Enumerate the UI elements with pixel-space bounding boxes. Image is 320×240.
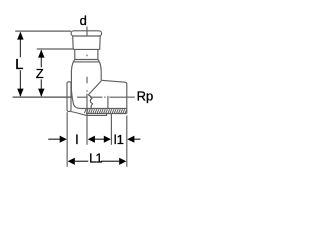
extension line top (bead top level) bbox=[15, 30, 71, 32]
press socket bead bbox=[71, 31, 102, 36]
svg-text:Rp: Rp bbox=[137, 88, 154, 103]
elbow miter diagonal bbox=[88, 81, 101, 95]
section break line (jagged) bbox=[88, 95, 92, 109]
socket waist walls bbox=[75, 49, 98, 59]
right port outline (top edge, end face) bbox=[101, 80, 127, 113]
svg-text:L1: L1 bbox=[89, 150, 102, 165]
svg-text:d: d bbox=[80, 13, 87, 28]
body left wall (flared) bbox=[71, 62, 73, 91]
socket stop step line bbox=[73, 48, 100, 50]
flange disc bbox=[67, 82, 71, 112]
arrow Z up bbox=[38, 50, 44, 58]
press socket walls bbox=[73, 36, 101, 49]
extension line D bbox=[126, 116, 128, 167]
thread band top line bbox=[85, 108, 127, 110]
extension line Z top (socket stop level) bbox=[37, 48, 73, 50]
thread band bottom line bbox=[86, 113, 127, 115]
arrow L1 left bbox=[68, 158, 75, 165]
vertical centerline bbox=[86, 27, 88, 114]
svg-text:l: l bbox=[76, 132, 79, 147]
arrow L up bbox=[17, 32, 23, 40]
extension line C bbox=[110, 114, 112, 145]
horizontal axis extension left bbox=[13, 96, 73, 98]
extension line A bbox=[66, 112, 68, 167]
dimension line L bbox=[19, 33, 21, 97]
step-out chamfers bbox=[73, 60, 99, 62]
bore end face bbox=[107, 96, 109, 109]
bottom outer contour bbox=[71, 112, 107, 116]
waist bottom line bbox=[75, 59, 98, 61]
Rp leader line bbox=[127, 96, 135, 98]
svg-text:L: L bbox=[15, 56, 23, 73]
svg-text:Z: Z bbox=[36, 66, 44, 81]
svg-text:l1: l1 bbox=[114, 132, 124, 147]
arrow L down bbox=[17, 89, 23, 97]
flange top connector bbox=[70, 81, 73, 83]
body top line bbox=[73, 61, 99, 63]
horizontal centerline through body bbox=[77, 96, 127, 98]
dimension l right arrow / l1 left arrow bbox=[95, 138, 105, 140]
dimension line L1 bbox=[75, 160, 120, 162]
elbow outer corner curve bbox=[71, 90, 84, 109]
arrow Z down bbox=[38, 89, 44, 97]
dimension l left arrow bbox=[48, 138, 60, 140]
thread symbol dashes bbox=[84, 109, 126, 113]
arrow L1 right bbox=[119, 158, 126, 165]
extension line B (axis extended to dimension row) bbox=[86, 114, 88, 145]
body right wall (flared) bbox=[100, 62, 102, 80]
dimension l1 right arrow bbox=[134, 138, 140, 140]
dimension line Z bbox=[40, 50, 42, 96]
